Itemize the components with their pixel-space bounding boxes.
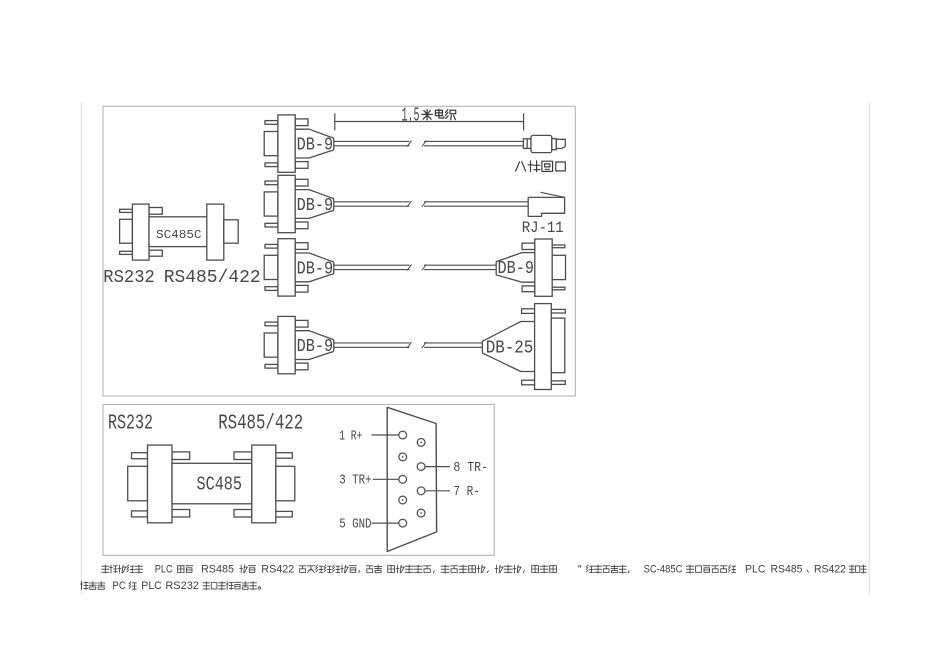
svg-text:RS232: RS232 [103, 266, 155, 288]
connector DB-9 row2 left : boot [295, 190, 334, 219]
table cell border left [80, 102, 82, 594]
svg-text:PC: PC [112, 580, 126, 592]
DB-9 pinout outline [387, 407, 436, 551]
connector DB-25 row4 right : shell [551, 309, 565, 384]
connector DB-9 row3 left : flange [278, 239, 308, 296]
adapter SC485 : body [172, 463, 252, 504]
wire cable row4 left segment [334, 342, 412, 348]
wire cable row1 right segment [422, 141, 524, 147]
svg-text:1 R+: 1 R+ [339, 428, 362, 444]
svg-text:PLC: PLC [141, 580, 162, 592]
connector DB-9 row1 left : boot [295, 129, 334, 158]
svg-text:SC-485C: SC-485C [644, 564, 683, 576]
wire cable row2 left segment [334, 201, 412, 207]
connector RJ-11 row2 right [528, 192, 564, 216]
dimension label 1.5m cable text [402, 105, 420, 127]
connector DB-9 row4 left : boot [295, 331, 334, 360]
adapter SC485C : body [149, 217, 207, 247]
connector DB-25 row4 right : boot [482, 322, 534, 372]
label 8-pin round port (cjk) [516, 161, 566, 172]
svg-text:DB-9: DB-9 [297, 336, 334, 357]
svg-text:DB-9: DB-9 [297, 135, 334, 156]
svg-text:DB-9: DB-9 [297, 258, 334, 279]
dimension label cjk mi-dian-lan [422, 109, 456, 120]
adapter SC485 : RS485 side [234, 445, 295, 523]
svg-text:PLC: PLC [155, 564, 173, 576]
svg-text:5 GND: 5 GND [339, 516, 371, 532]
svg-text:RS232: RS232 [165, 580, 199, 592]
table cell border right [868, 102, 870, 594]
figure box 1 frame [103, 106, 575, 396]
svg-text:RS485/422: RS485/422 [218, 413, 303, 436]
wire cable row1 left segment [334, 141, 412, 147]
connector DB-25 row4 right : flange [522, 304, 552, 390]
adapter SC485C : RS232 side [120, 204, 163, 260]
pin 1 leader wire [372, 434, 399, 436]
svg-text:RS485: RS485 [201, 564, 234, 576]
connector 8-pin round (mini-DIN) row1 right [523, 135, 565, 152]
svg-text:RS485/422: RS485/422 [164, 266, 261, 288]
wire cable row3 left segment [334, 264, 412, 270]
paragraph line 2 [80, 580, 260, 592]
pin 3 leader wire [373, 478, 399, 480]
connector DB-9 row3 right : shell [552, 245, 565, 290]
svg-text:RS422: RS422 [814, 564, 846, 576]
connector DB-9 row3 right : boot [496, 253, 535, 283]
svg-text:DB-9: DB-9 [498, 258, 535, 279]
connector DB-9 row2 left : shell [264, 181, 278, 227]
svg-text:RS485: RS485 [771, 564, 803, 576]
dimension line 1.5m cable [335, 113, 524, 130]
svg-text:DB-25: DB-25 [486, 337, 534, 358]
wire cable row4 right segment [422, 342, 483, 348]
svg-text:SC485C: SC485C [156, 228, 202, 242]
connector DB-9 row3 left : shell [264, 244, 278, 290]
adapter SC485 : RS232 side [128, 445, 190, 523]
svg-text:8 TR-: 8 TR- [453, 460, 488, 476]
svg-text:DB-9: DB-9 [297, 195, 334, 216]
svg-text:PLC: PLC [745, 564, 766, 576]
connector DB-9 row3 right : flange [522, 239, 552, 296]
connector DB-9 row4 left : flange [278, 316, 308, 373]
pin 7 leader wire [425, 490, 450, 492]
svg-text:7 R-: 7 R- [453, 484, 480, 500]
connector DB-9 row1 left : shell [264, 121, 278, 167]
svg-text:3 TR+: 3 TR+ [339, 473, 371, 489]
connector DB-9 row2 left : flange [278, 175, 308, 232]
svg-text:SC485: SC485 [197, 474, 243, 496]
connector DB-9 row4 left : shell [264, 322, 278, 368]
connector DB-9 row1 left : flange [278, 115, 308, 172]
wire cable row2 right segment [422, 201, 528, 207]
connector DB-9 row3 left : boot [295, 253, 334, 282]
DB-9 pins left column 1,2,3,4,5 [399, 431, 407, 527]
svg-text:RJ-11: RJ-11 [522, 219, 564, 237]
paragraph line 1 [102, 564, 867, 576]
figure box 2 frame [103, 405, 494, 556]
DB-9 pins right column 6,7,8,9 [417, 439, 425, 517]
svg-text:RS232: RS232 [108, 413, 153, 436]
pin 8 leader wire [425, 466, 450, 468]
pin 5 leader wire [372, 522, 399, 524]
svg-text:1.5: 1.5 [402, 105, 420, 127]
adapter SC485C : RS485 side [207, 204, 238, 260]
wire cable row3 right segment [422, 264, 496, 270]
svg-text:RS422: RS422 [261, 564, 294, 576]
